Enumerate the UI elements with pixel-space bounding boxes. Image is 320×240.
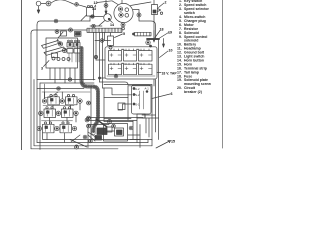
leader 10 bbox=[160, 51, 169, 58]
svg-text:19.: 19. bbox=[177, 78, 182, 82]
speed control solenoid row C bbox=[37, 121, 77, 133]
bottom left stubs bbox=[40, 83, 43, 150]
junction ring in battery bbox=[114, 74, 118, 78]
svg-text:A-2: A-2 bbox=[135, 87, 140, 91]
svg-text:18 V. TAP: 18 V. TAP bbox=[162, 72, 178, 76]
solenoid 8 coil bbox=[95, 124, 128, 142]
motor enclosure bbox=[128, 86, 152, 120]
arrow down from post bbox=[163, 39, 165, 48]
key switch 1 bbox=[114, 3, 133, 22]
cluster junction rings bbox=[87, 116, 91, 120]
wire key switch right bbox=[133, 10, 156, 39]
wire y16 bbox=[90, 16, 103, 18]
junction dot bbox=[99, 77, 101, 79]
speed selector switch box bbox=[46, 38, 78, 68]
small box left of motor bbox=[118, 103, 125, 110]
bus y88.5 bbox=[37, 88, 84, 90]
lever 1 bbox=[42, 41, 61, 49]
ground stub 12 bbox=[105, 0, 107, 15]
lever pivot ring 1 bbox=[58, 42, 62, 46]
receptacle comb bbox=[133, 32, 152, 36]
lever 2 bbox=[44, 47, 66, 55]
svg-text:S-2: S-2 bbox=[135, 93, 140, 97]
speed control solenoid row B bbox=[39, 106, 79, 118]
horn circled terminal bbox=[46, 1, 51, 6]
battery cells row1 bbox=[109, 49, 153, 61]
motor brushes bbox=[140, 91, 144, 109]
wire left vertical x37 bbox=[36, 25, 38, 143]
ladder branch y88 to motor bbox=[103, 88, 132, 95]
lever pivot ring 2 bbox=[62, 48, 66, 52]
cluster wires bbox=[87, 118, 152, 143]
wire to battery top bbox=[95, 41, 111, 48]
circled dots left of loom bbox=[87, 101, 91, 105]
arrow to label 15 bbox=[156, 141, 171, 149]
battery cells row2 bbox=[109, 63, 153, 74]
speed control solenoid row A bbox=[42, 92, 90, 105]
junction ring bbox=[75, 3, 79, 7]
leader 18 bbox=[155, 31, 160, 38]
svg-text:breaker (2): breaker (2) bbox=[184, 90, 202, 94]
circuit breaker group on bus bbox=[55, 28, 81, 38]
wire left vertical x34 bbox=[33, 80, 35, 146]
svg-text:2: 2 bbox=[165, 1, 167, 5]
legend list bbox=[177, 0, 211, 94]
wires y118 y121 bbox=[104, 119, 133, 122]
bus y83 bbox=[40, 82, 94, 84]
svg-text:5: 5 bbox=[123, 32, 125, 36]
motor 6 bbox=[132, 85, 152, 114]
right nested wires from motor bbox=[142, 114, 159, 140]
wire key switch to comp 2 bbox=[131, 2, 152, 6]
svg-text:A-1: A-1 bbox=[145, 86, 150, 90]
leader to 14 bbox=[110, 21, 113, 23]
leader 5 bbox=[115, 34, 123, 38]
key switch terminals bbox=[118, 7, 128, 17]
wire loom hatched bbox=[82, 48, 99, 133]
arrow down charger bbox=[153, 31, 155, 43]
svg-text:14: 14 bbox=[110, 23, 114, 27]
circled dot right of key switch bbox=[137, 13, 141, 17]
small contact circles bbox=[52, 53, 58, 58]
wire bus y21 bbox=[37, 21, 90, 25]
circled dot under charger bbox=[146, 40, 150, 44]
bus corner drops bbox=[45, 84, 59, 99]
ground arrow below horn button bbox=[37, 6, 40, 13]
wire to light switch box bbox=[78, 5, 86, 7]
battery inner bottom wire bbox=[107, 75, 155, 77]
circled dot left of battery bbox=[100, 39, 104, 43]
wires from switch box down bbox=[50, 68, 75, 83]
inter-row wires bbox=[45, 92, 81, 143]
svg-text:S-1: S-1 bbox=[135, 102, 140, 106]
svg-text:10: 10 bbox=[169, 49, 173, 53]
right bus risers bbox=[148, 140, 152, 146]
branch junction ring bbox=[94, 55, 97, 58]
wire y97 bbox=[104, 97, 128, 99]
battery 10 box bbox=[105, 47, 157, 79]
wire left vertical x31 bbox=[30, 34, 32, 149]
svg-text:6: 6 bbox=[171, 92, 173, 96]
svg-text:3.: 3. bbox=[179, 7, 182, 11]
light switch 13 bbox=[81, 5, 94, 20]
bus junction rings bbox=[57, 87, 60, 90]
svg-text:13: 13 bbox=[92, 7, 96, 11]
wire y26 bbox=[90, 21, 105, 26]
svg-text:3: 3 bbox=[41, 67, 43, 71]
horn 15 circle bbox=[104, 14, 112, 22]
battery plus post bbox=[147, 38, 159, 40]
wire below battery bbox=[100, 82, 153, 115]
bottom cluster box bbox=[88, 125, 140, 148]
bottom buses bbox=[31, 140, 152, 149]
leader 3 bbox=[44, 61, 50, 67]
wire feed to key switch bbox=[97, 0, 122, 5]
bus y79.5 bbox=[37, 79, 95, 81]
ladder verticals bbox=[94, 33, 105, 89]
key switch bottom terminals bbox=[121, 23, 125, 30]
leader 2 bbox=[159, 3, 165, 8]
leader 6 bbox=[152, 94, 170, 99]
horn button circle bbox=[36, 1, 41, 6]
svg-text:15: 15 bbox=[171, 140, 175, 144]
left page rule bbox=[21, 0, 23, 150]
svg-text:20.: 20. bbox=[177, 86, 182, 90]
wires motor left stubs bbox=[118, 104, 132, 110]
junction ring bbox=[92, 24, 95, 27]
dot bbox=[150, 45, 152, 47]
motor bottom tab bbox=[137, 114, 145, 118]
contact block bbox=[67, 40, 80, 53]
leader 18v tap bbox=[157, 72, 161, 74]
wire horn arc to light switch bbox=[41, 0, 74, 4]
leader 19 bbox=[158, 33, 169, 40]
right verticals bbox=[154, 40, 159, 140]
bottom junction ring bbox=[75, 145, 79, 149]
ladder lower verticals bbox=[91, 87, 104, 141]
wire comp2 to battery post bbox=[153, 15, 155, 39]
motor terminals bbox=[133, 86, 149, 106]
junction ring on bus y21 bbox=[54, 19, 58, 23]
terminal strip 16 comb bbox=[87, 28, 122, 32]
ladder branch y60 bbox=[96, 59, 105, 61]
speed switch 2 component bbox=[152, 0, 163, 15]
right page rule bbox=[222, 0, 224, 148]
svg-text:9.: 9. bbox=[179, 35, 182, 39]
leader 4 bbox=[58, 42, 61, 45]
ladder branch y78 bbox=[100, 77, 106, 79]
wire bus y30 bbox=[31, 30, 87, 34]
thick stub bbox=[96, 119, 107, 127]
solenoid coil lines bbox=[46, 98, 74, 132]
wire light switch down bbox=[89, 16, 91, 21]
junction ring bbox=[91, 15, 94, 18]
circled dot on ground stub bbox=[104, 4, 108, 8]
charger plug (vertical) bbox=[108, 33, 114, 49]
